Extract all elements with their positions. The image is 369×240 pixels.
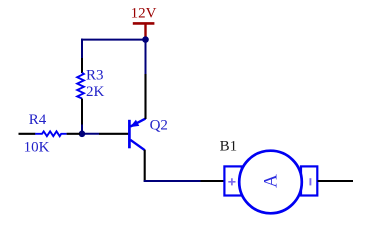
power stem wire bbox=[144, 23, 146, 38]
transistor Q2 emitter arrow bbox=[130, 120, 139, 127]
svg-text:R4: R4 bbox=[29, 112, 47, 128]
junction dot top bbox=[142, 36, 149, 43]
svg-text:A: A bbox=[261, 174, 282, 188]
transistor Q2 emitter line bbox=[130, 119, 145, 127]
transistor Q2 base pin bbox=[99, 133, 129, 135]
junction dot left bbox=[79, 131, 86, 138]
svg-text:B1: B1 bbox=[220, 138, 238, 154]
svg-text:2K: 2K bbox=[86, 84, 105, 100]
motor B1 plus terminal box bbox=[224, 166, 241, 195]
resistor R4 right pin bbox=[67, 133, 80, 135]
transistor Q2 collector line bbox=[130, 140, 145, 150]
motor B1 plus mark bbox=[228, 178, 235, 185]
svg-text:R3: R3 bbox=[86, 68, 104, 84]
resistor R3 top pin bbox=[81, 58, 83, 73]
transistor Q2 base bar bbox=[128, 120, 131, 149]
wire bottom black to B1 bbox=[201, 180, 224, 182]
power bar symbol 12V bbox=[133, 22, 155, 25]
motor B1 minus terminal box bbox=[301, 166, 317, 195]
wire bottom navy bbox=[144, 180, 201, 182]
wire top horizontal bbox=[81, 39, 146, 41]
motor B1 minus mark rotated bbox=[309, 178, 311, 185]
svg-text:Q2: Q2 bbox=[150, 118, 168, 134]
resistor R4 body bbox=[35, 131, 66, 136]
wire left vertical upper bbox=[81, 39, 83, 58]
svg-text:12V: 12V bbox=[131, 6, 157, 22]
motor B1 body circle bbox=[239, 151, 302, 214]
resistor R3 bottom pin bbox=[81, 99, 83, 125]
motor B1 right pin wire bbox=[318, 180, 354, 182]
wire input left bbox=[19, 133, 36, 135]
svg-text:10K: 10K bbox=[24, 139, 50, 155]
resistor R3 body bbox=[77, 73, 84, 99]
wire base navy bbox=[82, 133, 99, 135]
wire left vertical lower bbox=[81, 125, 83, 134]
wire collector vertical navy bbox=[145, 41, 147, 74]
transistor Q2 collector pin lower bbox=[144, 150, 146, 182]
transistor Q2 emitter pin upper bbox=[144, 74, 146, 119]
